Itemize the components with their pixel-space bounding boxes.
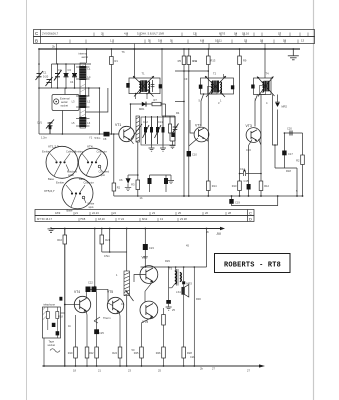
svg-text:0.5m: 0.5m — [104, 254, 110, 258]
svg-text:16: 16 — [260, 38, 264, 42]
resistor R7 — [152, 102, 161, 106]
wire: R1 feed vertical — [110, 49, 112, 134]
svg-text:VT1: VT1 — [115, 123, 121, 127]
page right edge — [313, 0, 315, 400]
dial strip C row frame — [34, 30, 315, 37]
svg-text:VT4: VT4 — [74, 290, 80, 294]
svg-text:26: 26 — [205, 211, 208, 215]
wire: mid bus — [180, 195, 303, 197]
wire: T5 primary bottom — [169, 284, 175, 288]
svg-text:External: External — [60, 96, 70, 100]
svg-text:MR1: MR1 — [139, 107, 145, 111]
side trimmer C13 — [172, 116, 179, 141]
svg-text:LS1: LS1 — [176, 290, 181, 294]
wire: VT6 emitter to VT7 link — [145, 281, 153, 302]
svg-text:0.1: 0.1 — [121, 302, 125, 306]
capacitor C12b — [165, 175, 167, 178]
wire: into filter box — [165, 104, 167, 117]
svg-text:C15: C15 — [244, 179, 249, 183]
svg-text:R25: R25 — [134, 351, 139, 355]
wire: R26 leg — [163, 308, 165, 366]
svg-text:VT7: VT7 — [142, 256, 148, 260]
resistor R12 — [259, 181, 263, 191]
wire: T4 secondary to VT3 — [255, 95, 258, 127]
svg-text:R7: R7 — [154, 98, 158, 102]
wire: bias link — [175, 70, 208, 72]
svg-text:C4: C4 — [70, 80, 74, 84]
winding L1/L2 — [79, 66, 86, 80]
svg-text:R11: R11 — [193, 59, 198, 63]
filter element 2 — [151, 116, 153, 144]
side network wire — [162, 49, 175, 116]
wire: socket bottom down to base bus — [61, 111, 63, 135]
socket circle — [54, 99, 59, 104]
svg-text:C23: C23 — [149, 246, 154, 250]
resistor R1 — [110, 57, 114, 65]
svg-text:C25: C25 — [99, 331, 104, 335]
resistor R21 leg — [101, 229, 103, 253]
strip row B tick marks — [113, 40, 285, 44]
svg-text:C19: C19 — [235, 200, 240, 204]
T2 left edge capacitor — [199, 85, 203, 89]
trimmer capacitor C5 — [46, 77, 53, 86]
wire: detector down — [274, 145, 276, 168]
resistor R9 — [238, 56, 242, 65]
jack internal resistor 2 — [56, 312, 59, 319]
wire+ground side network — [170, 141, 176, 149]
svg-text:10,11: 10,11 — [215, 38, 222, 42]
svg-text:18/9: 18/9 — [55, 211, 61, 215]
wire: T1 to detector line — [131, 103, 166, 105]
svg-text:MT 50 16.17: MT 50 16.17 — [37, 217, 53, 221]
wire: rod right vertical x88.8 — [86, 88, 89, 96]
svg-text:5-20: 5-20 — [43, 75, 49, 79]
resistor R16 — [63, 235, 67, 244]
svg-text:23 28: 23 28 — [180, 217, 187, 221]
svg-text:C6: C6 — [119, 178, 123, 182]
wire: VT2 collector to R14 leg — [205, 139, 209, 142]
svg-text:C16: C16 — [246, 148, 251, 152]
ground on agc link — [168, 175, 174, 184]
filter element 3 — [155, 116, 162, 144]
pinout VT1,2,3 — [46, 146, 78, 178]
svg-text:C12: C12 — [143, 120, 148, 124]
wire: x56.5 rail to tuner bus — [56, 49, 58, 64]
svg-text:R9: R9 — [243, 59, 247, 63]
node dots tuner — [38, 63, 75, 89]
variable capacitor C2 — [54, 70, 62, 81]
svg-text:18,20: 18,20 — [98, 217, 105, 221]
wire: lower link to mid bus — [137, 192, 139, 196]
svg-text:R4: R4 — [176, 111, 180, 115]
misc small labels audio — [58, 254, 195, 359]
svg-text:23: 23 — [152, 211, 155, 215]
lower strip letter cell divider — [247, 210, 249, 222]
wire: T4 right loop — [273, 95, 278, 146]
wire: VT6 base stub — [134, 275, 146, 283]
lower strip row 2 frame — [35, 216, 254, 222]
tiny value labels upper section — [143, 59, 298, 193]
pinout VT4 — [79, 148, 108, 177]
svg-text:R16: R16 — [57, 238, 62, 242]
svg-text:C17: C17 — [288, 152, 293, 156]
wire: VT1 base bus — [39, 133, 119, 135]
svg-text:13: 13 — [301, 38, 305, 42]
wire: detector bottom link — [275, 167, 297, 169]
supply arrow 9V — [220, 227, 225, 231]
filter element 1 — [143, 116, 150, 144]
svg-text:6.7/3: 6.7/3 — [219, 32, 226, 36]
svg-text:CV1: CV1 — [37, 121, 43, 125]
electrolytic C22 — [94, 329, 99, 334]
wire: bottom earth rail — [42, 365, 259, 367]
filter element 4 — [162, 116, 164, 144]
svg-text:R26: R26 — [156, 351, 161, 355]
diode MR2 — [275, 103, 279, 107]
T1 tuning arrows X — [133, 76, 154, 97]
wire: vertical x66 — [65, 64, 67, 88]
svg-text:75/8: 75/8 — [80, 217, 86, 221]
svg-text:C10: C10 — [192, 153, 197, 157]
strip letter cell divider — [40, 30, 42, 44]
IF transformer T2 box — [201, 78, 234, 94]
svg-text:socket: socket — [61, 104, 69, 108]
svg-text:Y1: Y1 — [89, 135, 93, 139]
wire: tuner bottom bus — [39, 87, 99, 89]
numeric tags below earth rail — [73, 367, 250, 373]
resistor R28 — [182, 347, 186, 358]
jack internal cap blob — [56, 331, 60, 335]
wire: x168.6 leg — [168, 267, 170, 300]
trimmer capacitor C1 — [36, 71, 44, 80]
volume control potentiometer — [124, 271, 134, 301]
svg-text:ROBERTS - RT8: ROBERTS - RT8 — [224, 261, 281, 269]
resistor R26 — [162, 347, 166, 358]
svg-text:R12: R12 — [264, 184, 269, 188]
flexible lead squiggle — [50, 349, 60, 353]
wire: VT3 collector leg — [259, 95, 262, 197]
svg-text:VT5,6,7: VT5,6,7 — [44, 189, 55, 193]
svg-text:C: C — [249, 211, 252, 216]
capacitor C23 — [143, 244, 148, 250]
wire: T5 primary top — [175, 267, 177, 271]
svg-text:2Y0/05&0/L7: 2Y0/05&0/L7 — [42, 32, 59, 36]
svg-text:VT1,2,3: VT1,2,3 — [48, 145, 59, 149]
svg-text:R1: R1 — [115, 59, 119, 63]
svg-text:5.6: 5.6 — [158, 38, 162, 42]
wire: T4 feed — [264, 49, 266, 78]
ferrite rod — [80, 63, 86, 128]
svg-text:R5: R5 — [178, 59, 182, 63]
wire: R11 feed — [188, 49, 190, 196]
svg-text:aerial: aerial — [82, 55, 89, 59]
wire: driver bus y267 — [141, 266, 207, 268]
capacitor C23 leg — [144, 229, 146, 268]
svg-text:6.8: 6.8 — [200, 38, 204, 42]
wire: box to VT4 base rail — [61, 312, 65, 314]
svg-text:Therm: Therm — [103, 316, 111, 320]
wire: rod right vertical x107.9 — [86, 88, 108, 112]
svg-text:Tape: Tape — [49, 340, 55, 344]
resistor R17 — [301, 155, 305, 165]
svg-text:13: 13 — [160, 217, 163, 221]
wire: VT5 emitter leg — [118, 312, 121, 366]
wire: link y252 — [102, 251, 127, 253]
T4 nested screen rect — [260, 86, 266, 95]
wire: VT2 base stub left — [190, 120, 194, 133]
svg-text:C2: C2 — [58, 68, 62, 72]
strip row C tick marks — [103, 33, 300, 37]
wire: right vertical chain — [302, 133, 304, 196]
svg-text:Emitter: Emitter — [56, 180, 64, 184]
svg-text:Coloured: Coloured — [99, 170, 110, 174]
node dots on audio rail — [64, 228, 208, 230]
lower strip row1 labels — [55, 211, 231, 215]
wire: x96.6 feedback leg — [96, 292, 98, 366]
capacitor C10 blob — [187, 151, 191, 157]
thermistor marks — [94, 317, 100, 323]
wire: main top supply rail — [39, 48, 300, 50]
svg-text:Collector: Collector — [97, 150, 107, 154]
wire: x109.7 leg — [109, 229, 111, 253]
svg-text:R22: R22 — [89, 351, 94, 355]
resistor R10 lower on x239.5 — [238, 181, 242, 191]
winding L3 — [79, 95, 86, 108]
svg-text:Emitter: Emitter — [75, 150, 83, 154]
capacitor C11 — [149, 175, 151, 178]
svg-text:R3: R3 — [131, 183, 135, 187]
rod terminal stubs — [76, 67, 90, 126]
wire: long vertical x239.5 — [239, 49, 241, 196]
wire: agc top link — [150, 174, 172, 176]
svg-text:R18: R18 — [286, 169, 291, 173]
transistor VT3 — [246, 128, 261, 143]
svg-text:R28: R28 — [187, 351, 192, 355]
resistor R25 — [140, 347, 144, 358]
svg-text:C9: C9 — [184, 77, 188, 81]
svg-text:15,16: 15,16 — [242, 32, 249, 36]
wire: vertical x74.5 — [74, 64, 76, 88]
diode MR3 — [182, 281, 185, 284]
wire: VT4 collector up to coupling — [85, 292, 87, 298]
svg-text:25: 25 — [178, 211, 181, 215]
T1 trimmer C9 — [151, 80, 155, 92]
resistor R11 — [187, 56, 191, 65]
svg-text:VT3: VT3 — [246, 124, 252, 128]
svg-text:-9V: -9V — [216, 232, 222, 236]
capacitor C19 below bus — [231, 196, 233, 199]
wire: VT1 collector up — [130, 104, 132, 128]
svg-text:C13: C13 — [158, 120, 163, 124]
wire: C6 top link — [128, 174, 138, 176]
resistor R10a — [136, 180, 140, 190]
driver transformer T5 — [175, 269, 182, 286]
wire: T1 terminal stubs — [136, 94, 147, 99]
svg-text:C3: C3 — [68, 68, 72, 72]
T2 right edge capacitor — [231, 85, 234, 89]
T1 left edge capacitor — [126, 83, 129, 88]
transistor VT1 — [119, 126, 134, 141]
winding L5/L6 — [79, 117, 86, 127]
svg-text:17: 17 — [278, 32, 282, 36]
node dots — [62, 87, 101, 135]
wire: left long rail x64.8 — [64, 229, 66, 367]
node dots on top rail — [38, 48, 294, 50]
ground under C24 — [166, 304, 172, 310]
wire: left vertical rail — [38, 49, 40, 134]
capacitor C15 electrolytic — [247, 184, 251, 190]
svg-text:R19: R19 — [68, 351, 73, 355]
svg-text:24: 24 — [113, 211, 116, 215]
T1 winding core cluster — [139, 80, 149, 92]
wire: R13 feed — [207, 49, 209, 196]
wire: C17 leg — [283, 133, 285, 168]
capacitor C4 — [72, 74, 77, 77]
svg-text:5.5m: 5.5m — [95, 136, 101, 140]
resistor R14 — [207, 181, 211, 191]
lower strip row2 labels — [37, 217, 187, 221]
T4 left edge capacitor — [251, 85, 254, 89]
IF filter sub-box — [141, 117, 175, 145]
dial strip B row frame — [34, 37, 315, 44]
jack internal wires — [48, 307, 58, 338]
T2 nested screen rect — [208, 87, 218, 95]
svg-text:internal: internal — [79, 52, 88, 56]
extra strip ticks right half — [70, 33, 308, 44]
svg-text:R24: R24 — [112, 351, 117, 355]
T2 winding core cluster — [211, 81, 222, 94]
svg-text:aerial: aerial — [61, 100, 68, 104]
page left edge — [26, 0, 28, 400]
svg-text:width: width — [68, 173, 75, 177]
resistor R5 — [182, 56, 186, 65]
svg-text:B: B — [35, 38, 38, 43]
earphone jack box — [43, 307, 61, 338]
svg-text:R2: R2 — [296, 159, 300, 163]
ground under filter box — [149, 144, 155, 151]
svg-text:1.2m: 1.2m — [41, 136, 47, 140]
svg-text:R10: R10 — [232, 184, 237, 188]
svg-text:1.2: 1.2 — [110, 38, 114, 42]
svg-text:C22: C22 — [88, 281, 93, 285]
svg-text:C14: C14 — [240, 167, 245, 171]
svg-text:VT4: VT4 — [87, 145, 93, 149]
resistor R22 — [95, 347, 99, 358]
capacitor C6 — [127, 175, 129, 178]
svg-text:R29: R29 — [165, 259, 170, 263]
svg-text:R18: R18 — [58, 315, 63, 319]
svg-text:spot: spot — [100, 173, 105, 177]
series capacitor C8 on base bus — [104, 132, 110, 137]
strip row C value labels — [42, 32, 282, 36]
wire: pot bottom down — [126, 296, 128, 367]
svg-text:14: 14 — [234, 32, 238, 36]
transistor VT6 — [140, 266, 158, 284]
oscillator transformer T1 box — [129, 78, 160, 94]
wire: x206.5 drop — [206, 229, 208, 268]
svg-text:7/ 24: 7/ 24 — [118, 217, 124, 221]
pinout VT5,6,7 — [62, 178, 93, 209]
svg-text:28: 28 — [228, 211, 231, 215]
node dots on earth rail — [43, 365, 195, 367]
svg-text:C1: C1 — [43, 71, 47, 75]
resistor R20 — [85, 347, 89, 358]
wire: vertical x51.5 — [51, 64, 53, 88]
svg-text:R2: R2 — [117, 186, 121, 190]
emitter network hatched resistor R6 — [131, 116, 142, 142]
capacitor C14 link — [240, 171, 262, 176]
earth rail arrow — [259, 364, 265, 367]
wire: vertical x57.5 — [57, 64, 59, 88]
svg-text:C20: C20 — [287, 127, 292, 131]
IF transformer T4 box — [254, 78, 272, 95]
svg-text:socket: socket — [48, 343, 56, 347]
svg-text:22.23: 22.23 — [92, 211, 99, 215]
T2 tuning arrows X — [205, 76, 226, 97]
capacitor C20 — [290, 131, 292, 136]
svg-text:12: 12 — [244, 38, 248, 42]
svg-text:16: 16 — [283, 38, 287, 42]
wire: audio supply rail — [51, 228, 220, 230]
svg-text:R30: R30 — [196, 297, 201, 301]
T2 top terminal stubs — [223, 74, 225, 78]
wire: socket top to bus — [64, 88, 66, 95]
jack internal resistor — [46, 312, 49, 319]
misc value label speckle — [68, 59, 257, 352]
svg-text:telephone: telephone — [44, 303, 56, 307]
wire: VT7 emitter down — [142, 317, 154, 366]
resistor R13 — [207, 56, 211, 65]
aerial earth symbol at rail end — [288, 49, 299, 60]
wire: x297 to bus — [296, 168, 298, 196]
wire: AGC link — [284, 132, 302, 134]
diode MR1 — [142, 102, 146, 107]
wire: VT4 base from left rail — [65, 304, 80, 306]
trimmer CV1 — [46, 120, 54, 135]
svg-text:MR3: MR3 — [186, 281, 192, 285]
lower strip row 1 frame — [35, 210, 254, 216]
jack internal diode blob — [52, 323, 56, 327]
T1 right edge capacitor — [159, 84, 162, 88]
wire: T2 secondary to VT2 base — [201, 94, 204, 126]
wire: VT3 emitter leg — [249, 140, 253, 197]
strip-to-rail stubs — [57, 44, 266, 50]
title box ROBERTS RT8 — [215, 254, 291, 273]
wire: rod right vertical x99.4 — [98, 88, 100, 134]
T1 bottom terminals — [130, 93, 148, 105]
svg-text:White: White — [88, 202, 95, 206]
transistor VT4 — [74, 296, 90, 312]
svg-text:5. CHA. 5.8,0/L7 19/8: 5. CHA. 5.8,0/L7 19/8 — [137, 32, 164, 36]
resistor R24 — [118, 347, 122, 358]
wire: x183.7 lower — [183, 294, 185, 366]
svg-text:Emitter: Emitter — [42, 150, 50, 154]
lower strip ticks — [74, 212, 226, 222]
svg-text:4.8: 4.8 — [124, 32, 128, 36]
second ground under filter box — [160, 144, 166, 151]
capacitor C3 — [64, 74, 69, 77]
wire: AGC rail x113.8 — [113, 134, 115, 196]
svg-text:R14: R14 — [212, 184, 217, 188]
wire: volume feed x126.7 — [126, 229, 128, 272]
loudspeaker LS1 — [182, 285, 189, 297]
chassis earth at rail left end — [48, 227, 55, 232]
T4 winding core cluster — [262, 81, 269, 92]
svg-text:Base: Base — [67, 208, 73, 212]
T2 bottom terminals — [203, 93, 223, 95]
svg-text:12: 12 — [193, 32, 197, 36]
resistor R2 — [112, 183, 116, 191]
